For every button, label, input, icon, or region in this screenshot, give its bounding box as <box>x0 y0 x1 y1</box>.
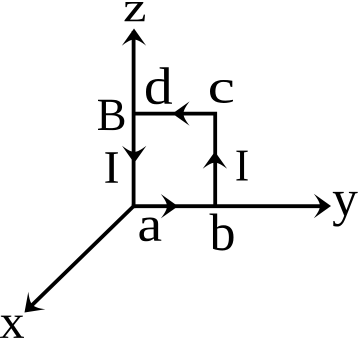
label z <box>125 2 146 21</box>
wire: x-axis line <box>27 206 134 310</box>
current arrow on segment c-d (pointing left) <box>172 101 189 125</box>
wire: loop right side b-c and top side c-d <box>134 114 216 207</box>
x-axis arrowhead <box>16 292 45 321</box>
y-axis arrowhead <box>314 194 331 218</box>
label c <box>210 80 233 103</box>
label y <box>333 192 358 227</box>
label Ir <box>236 151 247 181</box>
current arrow on segment a-b (pointing right) <box>161 194 178 218</box>
z-axis arrowhead <box>122 29 146 46</box>
label x <box>0 316 24 338</box>
label d <box>146 67 172 104</box>
label B <box>98 100 124 130</box>
label Il <box>105 152 118 183</box>
wire: y-axis line <box>132 204 328 208</box>
current arrow on segment b-c (pointing up) <box>203 152 227 169</box>
label b <box>210 214 234 251</box>
wire: z-axis line <box>132 31 136 208</box>
current arrow on segment d-a (pointing down) <box>122 146 146 163</box>
label a <box>139 218 161 242</box>
